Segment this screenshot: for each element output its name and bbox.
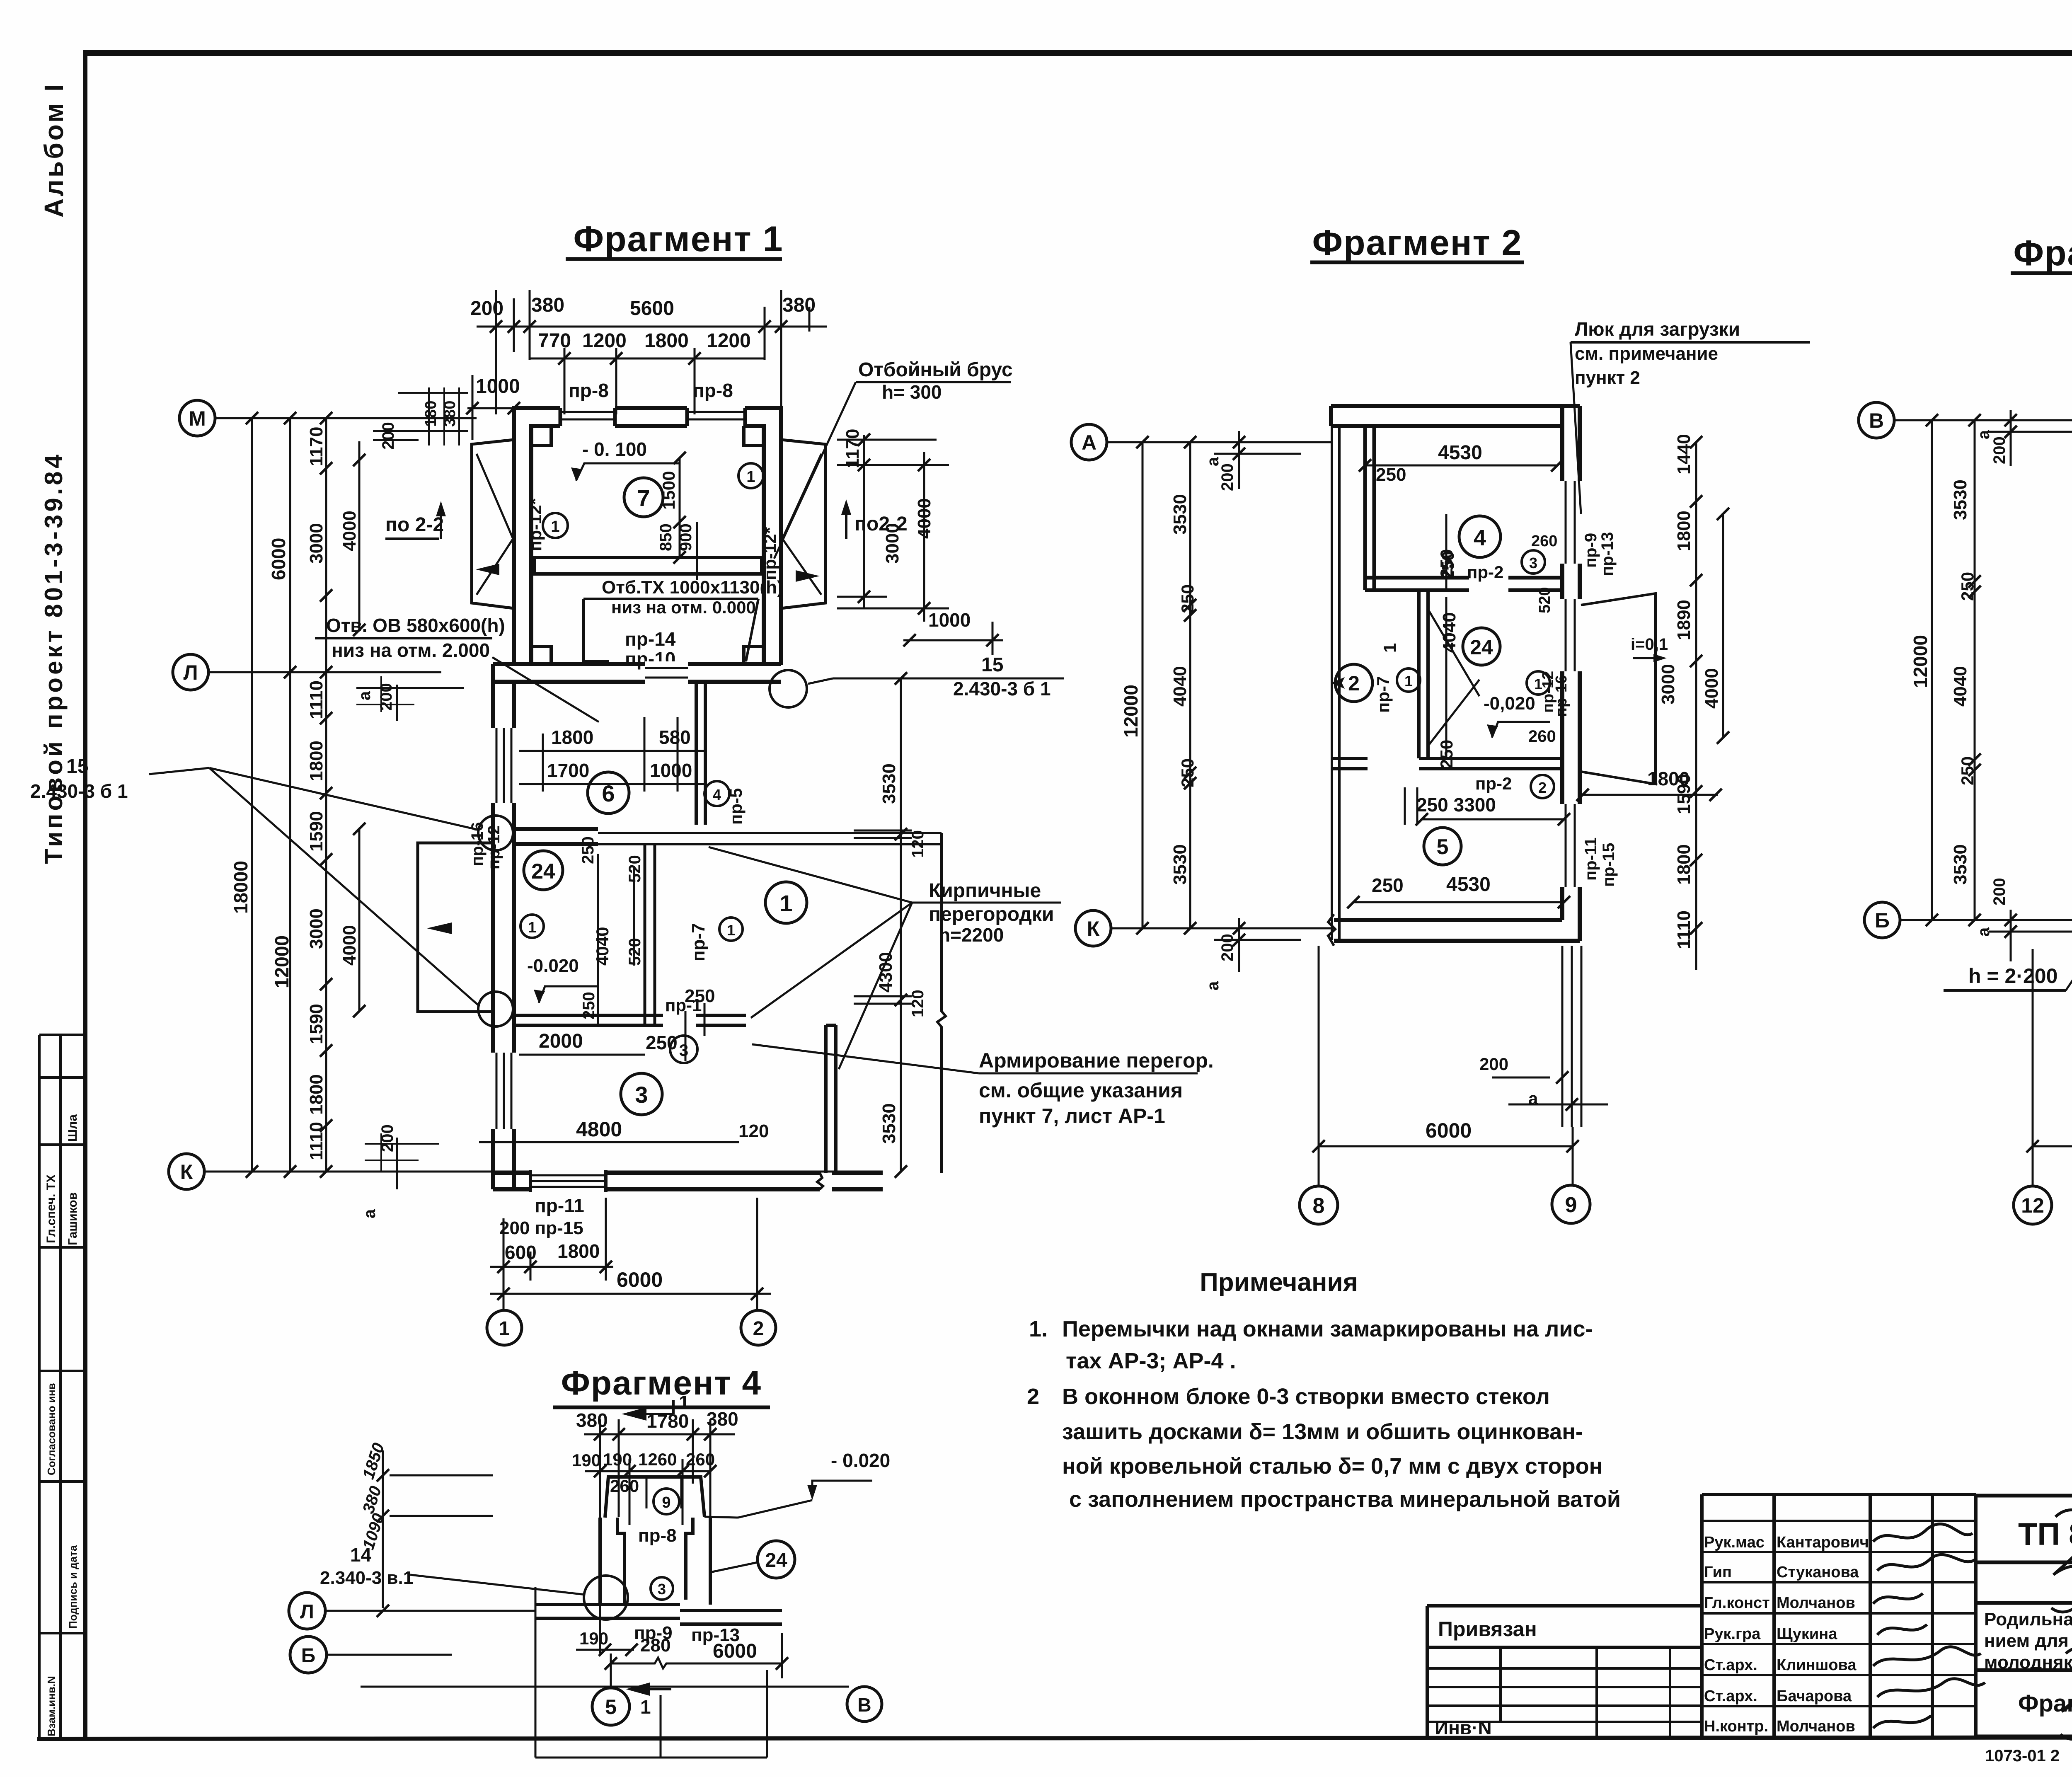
svg-text:пр-7: пр-7 (1373, 676, 1393, 713)
svg-text:А: А (1082, 431, 1097, 454)
F2 middle partition (1419, 590, 1428, 758)
svg-text:200: 200 (1218, 934, 1237, 961)
F1 по2-2 right (854, 513, 908, 535)
svg-text:Клиншова: Клиншова (1777, 1656, 1857, 1674)
svg-text:6000: 6000 (713, 1640, 757, 1662)
svg-text:1500: 1500 (659, 471, 678, 510)
svg-text:24: 24 (531, 859, 555, 884)
svg-text:3000: 3000 (306, 908, 327, 949)
svg-text:4000: 4000 (339, 925, 360, 966)
F1 left tambour arrow (476, 564, 499, 575)
F3 h=2.200 callout (1968, 964, 2057, 988)
svg-text:1: 1 (1380, 643, 1399, 653)
F4 axis circle В right (847, 1687, 882, 1721)
F1 Л wall door gap (645, 661, 688, 684)
svg-text:2.430-3 б 1: 2.430-3 б 1 (30, 780, 128, 802)
svg-text:Фрагмент 3: Фрагмент 3 (2014, 233, 2072, 273)
F1 right tambour door swings (782, 454, 821, 595)
svg-text:260: 260 (1528, 727, 1556, 746)
sheet border top (84, 50, 2072, 56)
F4 axis circle Б (290, 1637, 327, 1673)
faint stamp below (1985, 1747, 2060, 1765)
svg-text:h= 300: h= 300 (882, 381, 942, 403)
svg-text:В: В (1869, 409, 1884, 432)
F1 leader circle right corner (770, 670, 807, 707)
F2 room4 left wall (1365, 426, 1374, 590)
F2 right wall (1562, 406, 1580, 941)
F1 room3 dims (539, 986, 769, 1141)
svg-text:190: 190 (572, 1450, 601, 1470)
album label vertical (39, 82, 69, 218)
svg-text:5: 5 (1437, 835, 1449, 859)
svg-text:Фрагмент 2: Фрагмент 2 (1312, 223, 1523, 263)
F1 left chain 18000 (230, 861, 252, 914)
svg-text:Рук.гра: Рук.гра (1704, 1625, 1761, 1643)
F2 room5 circle (1424, 828, 1461, 865)
F1 room24 partition vertical (645, 844, 655, 1024)
svg-text:2: 2 (1348, 672, 1360, 695)
F1 bottom dims (499, 1195, 663, 1291)
svg-text:1170: 1170 (842, 429, 863, 468)
F2 1800 dim right (1647, 768, 1690, 789)
F1 left wall window 2 (490, 1053, 517, 1129)
svg-text:1073-01 2: 1073-01 2 (1985, 1747, 2060, 1765)
svg-text:1110: 1110 (306, 680, 327, 719)
F1 small dim cluster Л (356, 683, 395, 711)
svg-text:ной кровельной сталью δ= 0,: ной кровельной сталью δ= 0,7 мм с двух с… (1062, 1454, 1602, 1479)
svg-text:Родильная на 25коров с помеще: Родильная на 25коров с помеще (1984, 1609, 2072, 1629)
F1 left chain 6000 12000 (268, 538, 293, 988)
F1 room3 circle (621, 1073, 662, 1115)
svg-text:280: 280 (640, 1635, 670, 1656)
title Фрагмент 4 (561, 1364, 762, 1402)
svg-text:Кантарович: Кантарович (1777, 1534, 1869, 1551)
svg-text:-0.020: -0.020 (527, 956, 579, 976)
F1 bottom wall break (817, 1173, 823, 1189)
svg-text:1200: 1200 (582, 330, 627, 352)
svg-text:9: 9 (662, 1494, 670, 1511)
note 1 line 1 (1029, 1317, 1593, 1341)
svg-text:а: а (1204, 457, 1222, 466)
svg-text:3000: 3000 (1658, 664, 1678, 705)
svg-text:молодняка на 220 голов: молодняка на 220 голов (1984, 1652, 2072, 1673)
F4 section mark K1 (622, 1400, 673, 1421)
F1 room1 break line right (937, 833, 946, 1173)
F1 right chain lower (876, 763, 927, 1144)
F4 axis circle 5 (592, 1688, 629, 1725)
F3 axis circle Б (1864, 902, 1900, 938)
svg-text:2: 2 (753, 1318, 764, 1340)
F1 room7 vertical dim 1500/850/900 (657, 471, 695, 551)
svg-text:1260: 1260 (638, 1450, 677, 1469)
svg-text:5: 5 (605, 1695, 617, 1719)
svg-text:пр-2: пр-2 (1475, 774, 1512, 793)
svg-text:К: К (1087, 917, 1100, 940)
svg-text:Кирпичные: Кирпичные (929, 880, 1041, 902)
titleblock left box Привязан (1427, 1606, 1702, 1736)
F2 left thin wall (1332, 426, 1339, 940)
svg-text:2: 2 (1538, 779, 1547, 796)
svg-text:тах АР-3; АР-4 .: тах АР-3; АР-4 . (1066, 1348, 1236, 1373)
F1 left leader 15 (30, 755, 128, 802)
F1 mark -0.020 (527, 956, 579, 976)
svg-text:6000: 6000 (617, 1268, 663, 1291)
F4 floor lines (535, 1605, 782, 1624)
svg-text:3: 3 (679, 1041, 688, 1060)
svg-text:12: 12 (2021, 1194, 2044, 1217)
svg-text:1800: 1800 (551, 726, 593, 748)
svg-text:250: 250 (646, 1032, 678, 1053)
F4 leader 14 2.340 (320, 1544, 413, 1588)
svg-text:Л: Л (183, 661, 198, 684)
F1 axis line Л (208, 671, 441, 673)
F2 circle 1 right + пр-12 пр-16 (1527, 671, 1550, 695)
F3 axis circle В (1859, 402, 1894, 438)
F4 пр-8 label (638, 1525, 677, 1546)
svg-text:1.: 1. (1029, 1317, 1048, 1341)
svg-text:1110: 1110 (1674, 910, 1694, 949)
F1 lower block left wall (493, 664, 514, 1189)
F2 люк callout (1575, 318, 1740, 388)
svg-text:1: 1 (499, 1318, 510, 1340)
F2 left chains (1120, 457, 1237, 990)
svg-text:В оконном блоке 0-3 створки: В оконном блоке 0-3 створки вместо стеко… (1062, 1384, 1550, 1409)
svg-text:770: 770 (538, 330, 571, 352)
svg-text:250: 250 (1376, 465, 1406, 485)
svg-text:120: 120 (909, 830, 927, 858)
F1 circle 3 small (670, 1036, 697, 1063)
note 2 line 4 (1069, 1487, 1621, 1512)
svg-text:260: 260 (686, 1450, 715, 1469)
F2 room4 dims (1376, 442, 1503, 582)
svg-text:4800: 4800 (576, 1118, 622, 1141)
personnel signatures scribbles (1873, 1510, 2072, 1739)
svg-text:пр-13: пр-13 (1598, 532, 1617, 576)
svg-text:пункт 7, лист АР-1: пункт 7, лист АР-1 (979, 1104, 1165, 1128)
svg-text:200: 200 (470, 298, 503, 320)
F1 bottom wall (493, 1173, 883, 1189)
F1 axis circle 1 (487, 1310, 522, 1345)
svg-text:4: 4 (1474, 525, 1486, 550)
svg-text:190: 190 (579, 1629, 608, 1648)
svg-text:1000: 1000 (650, 760, 692, 781)
svg-text:см. примечание: см. примечание (1575, 344, 1718, 364)
svg-text:3530: 3530 (879, 763, 899, 804)
svg-text:Люк для загрузки: Люк для загрузки (1575, 318, 1740, 340)
F4 top dims row2 (572, 1450, 715, 1470)
F1 right tambour (781, 440, 825, 608)
svg-text:пр-15: пр-15 (1600, 843, 1618, 887)
note 1 line 2 (1066, 1348, 1236, 1373)
titleblock right box (1976, 1496, 2072, 1736)
svg-text:по 2-2: по 2-2 (385, 514, 444, 536)
svg-text:1800: 1800 (306, 1074, 327, 1115)
F2 bottom wall break (1328, 914, 1335, 946)
svg-text:1000: 1000 (476, 375, 520, 397)
F1 axis circle 2 (741, 1310, 776, 1345)
svg-text:4: 4 (713, 786, 721, 803)
svg-text:пункт 2: пункт 2 (1575, 368, 1640, 388)
svg-text:пр-12*: пр-12* (525, 498, 545, 551)
title Фрагмент 2 (1312, 223, 1523, 263)
svg-text:Типовой проект 801-3-39.84: Типовой проект 801-3-39.84 (40, 452, 68, 864)
svg-text:низ на отм. 2.000: низ на отм. 2.000 (332, 639, 490, 661)
svg-text:Гл.спеч. ТХ: Гл.спеч. ТХ (44, 1174, 58, 1243)
svg-text:с заполнением пространства: с заполнением пространства минеральной в… (1069, 1487, 1621, 1512)
svg-text:2.340-3 в.1: 2.340-3 в.1 (320, 1568, 413, 1588)
F1 отбойный брус callout (858, 359, 1013, 403)
svg-text:250: 250 (579, 836, 597, 864)
F1 axis circle Л (173, 654, 208, 690)
svg-text:2000: 2000 (539, 1030, 583, 1052)
F2 right wall window 2 (1559, 599, 1583, 671)
svg-text:200: 200 (1218, 463, 1237, 491)
svg-text:Бачарова: Бачарова (1777, 1687, 1852, 1705)
F2 right wall window 1 (1559, 481, 1583, 564)
svg-text:1590: 1590 (306, 1004, 327, 1044)
svg-text:пр-16: пр-16 (1553, 675, 1570, 717)
F3 axis circle 12 (2014, 1186, 2052, 1224)
F1 bottom wall window (530, 1170, 606, 1192)
F1 кирпичные перегородки callout (929, 880, 1054, 946)
svg-text:Гип: Гип (1704, 1564, 1732, 1581)
svg-text:Инв·N: Инв·N (1435, 1717, 1492, 1738)
F4 window block top (605, 1477, 704, 1518)
svg-text:260: 260 (1531, 533, 1557, 550)
F4 top dims row1 (576, 1408, 738, 1432)
svg-text:1890: 1890 (1674, 600, 1694, 640)
svg-text:24: 24 (765, 1549, 787, 1571)
F1 mark -0.100 (582, 438, 647, 460)
F1 small dim cluster M (379, 401, 459, 450)
F2 i=0.1 (1631, 635, 1668, 654)
F2 260 520 dims (1531, 533, 1557, 613)
svg-text:Щукина: Щукина (1777, 1625, 1837, 1643)
svg-text:1590: 1590 (1674, 774, 1694, 814)
svg-text:3530: 3530 (1950, 844, 1970, 885)
F4 arrow 1 mark (626, 1683, 671, 1696)
F1 top dim ticks 2 (558, 352, 701, 365)
svg-text:Б: Б (301, 1645, 316, 1667)
F4 circle 3 (651, 1577, 673, 1600)
svg-text:1: 1 (727, 922, 735, 939)
svg-text:по2-2: по2-2 (854, 513, 908, 535)
F1 Л wall (493, 664, 781, 682)
F1 axis line К (204, 1171, 883, 1173)
svg-text:1: 1 (528, 919, 536, 936)
F1 армирование callout (979, 1049, 1214, 1128)
svg-text:Фрагменты 1÷4: Фрагменты 1÷4 (2018, 1690, 2072, 1717)
F1 right tambour arrow (796, 570, 820, 582)
svg-text:1170: 1170 (306, 427, 327, 466)
svg-text:1: 1 (640, 1696, 651, 1718)
F1 small rotated dims room24 (579, 836, 644, 1019)
notes title (1200, 1268, 1358, 1297)
F4 circle 24 with leader (758, 1541, 795, 1578)
svg-text:h=2200: h=2200 (939, 924, 1004, 946)
svg-text:пр-5: пр-5 (726, 788, 746, 825)
F2 plan top wall (1331, 406, 1580, 426)
F4 circle 9 (654, 1489, 679, 1514)
F1 right leader 15 (953, 654, 1051, 700)
titleblock project name (1984, 1609, 2072, 1673)
svg-text:пр-8: пр-8 (638, 1525, 677, 1546)
svg-text:2: 2 (1027, 1384, 1039, 1409)
svg-text:перегородки: перегородки (929, 903, 1054, 925)
svg-text:250 3300: 250 3300 (1416, 794, 1496, 816)
F2 room24 bottom partition (1332, 758, 1562, 769)
svg-text:К: К (180, 1160, 193, 1184)
svg-text:15: 15 (981, 654, 1003, 676)
F2 axis circle 8 (1300, 1186, 1338, 1224)
F1 room7 corner piers (531, 426, 764, 664)
svg-text:пр-8: пр-8 (693, 380, 733, 401)
F1 circle 4 pr-5 (704, 781, 729, 806)
F1 top dim ticks 1 (490, 320, 787, 333)
svg-text:- 0. 100: - 0. 100 (582, 438, 647, 460)
svg-text:- 0.020: - 0.020 (831, 1450, 890, 1471)
F1 пр-16 пр-12 rotated (468, 822, 503, 869)
title Фрагмент 3 (2014, 233, 2072, 273)
svg-text:пр-11: пр-11 (1582, 838, 1600, 881)
svg-text:Фрагмент 4: Фрагмент 4 (561, 1364, 762, 1402)
svg-text:190: 190 (603, 1450, 632, 1469)
svg-text:Отв. ОВ 580х600(h): Отв. ОВ 580х600(h) (326, 615, 505, 636)
svg-text:250: 250 (1372, 874, 1404, 896)
F1 room7 outer walls (514, 408, 781, 665)
svg-text:4000: 4000 (339, 511, 360, 551)
svg-text:Стуканова: Стуканова (1777, 1564, 1859, 1581)
F1 top dim line 1 (477, 290, 827, 414)
svg-text:3530: 3530 (1950, 479, 1970, 520)
F1 room6 partition right (696, 682, 705, 825)
F2 room24 circle (1463, 628, 1500, 665)
svg-text:250: 250 (685, 986, 715, 1006)
svg-text:3: 3 (1529, 554, 1537, 571)
svg-text:Ст.арх.: Ст.арх. (1704, 1687, 1757, 1705)
F4 190 280 dims (579, 1629, 670, 1656)
svg-text:Подпись и дата: Подпись и дата (67, 1545, 79, 1629)
F1 top dim line 2 (530, 348, 765, 414)
svg-text:580: 580 (659, 726, 691, 748)
F2 door swings middle (1428, 609, 1479, 746)
svg-text:Примечания: Примечания (1200, 1268, 1358, 1297)
F1 по2-2 left (385, 514, 444, 536)
svg-text:низ на отм. 0.000: низ на отм. 0.000 (611, 598, 756, 617)
svg-text:250: 250 (1178, 758, 1197, 787)
svg-text:1000: 1000 (928, 609, 971, 631)
sheet border bottom (37, 1737, 2072, 1739)
F2 mark -0.020 (1484, 693, 1535, 714)
svg-text:200: 200 (1990, 436, 2009, 464)
svg-text:пр-11: пр-11 (535, 1195, 584, 1216)
svg-text:180: 180 (422, 401, 440, 427)
svg-text:5600: 5600 (630, 298, 674, 320)
svg-text:В: В (857, 1694, 871, 1716)
F2 rotated пр labels right (1582, 532, 1618, 887)
F2 bottom wall (1334, 920, 1580, 941)
F2 room4 bottom wall (1365, 578, 1562, 590)
personnel names (1704, 1534, 1869, 1735)
svg-text:а: а (1204, 981, 1222, 990)
svg-text:1780: 1780 (646, 1410, 689, 1432)
svg-text:7: 7 (637, 485, 650, 511)
svg-text:пр-14: пр-14 (625, 628, 676, 650)
svg-text:М: М (189, 407, 206, 430)
svg-text:4000: 4000 (1702, 668, 1722, 709)
F1 feed bar (535, 557, 762, 574)
svg-text:260: 260 (610, 1476, 639, 1496)
svg-text:Б: Б (1875, 909, 1890, 932)
F1 left wall window 1 (490, 728, 517, 803)
svg-text:Привязан: Привязан (1438, 1617, 1537, 1641)
F1 left tambour (472, 440, 514, 608)
F1 room1 circle (765, 882, 807, 923)
F1 top dim 1000 (476, 375, 520, 397)
svg-text:120: 120 (738, 1121, 769, 1141)
F1 room6 dims (547, 726, 692, 781)
F2 room5 dims bottom (1372, 874, 1491, 896)
svg-text:1800: 1800 (1674, 511, 1694, 551)
svg-text:1: 1 (1404, 673, 1413, 690)
svg-text:Армирование перегор.: Армирование перегор. (979, 1049, 1214, 1072)
svg-text:Молчанов: Молчанов (1777, 1718, 1855, 1735)
F2 axis circle К (1075, 910, 1111, 946)
svg-text:ТП 801-3-39.84: ТП 801-3-39.84 (2018, 1517, 2072, 1552)
F1 отб.ТХ callout (602, 577, 783, 617)
svg-text:380: 380 (531, 294, 564, 316)
svg-text:Альбом I: Альбом I (39, 82, 69, 218)
svg-text:Молчанов: Молчанов (1777, 1594, 1855, 1612)
F1 room3 right wall (826, 1025, 836, 1173)
svg-text:1440: 1440 (1674, 434, 1694, 475)
svg-text:380: 380 (707, 1408, 738, 1430)
F1 top dim row 2 (538, 330, 751, 352)
F1 left tambour door swings (477, 454, 513, 595)
note 2 line 1 (1027, 1384, 1550, 1409)
F1 right chains upper (842, 429, 934, 564)
svg-text:Перемычки над окнами замарк: Перемычки над окнами замаркированы на ли… (1062, 1317, 1593, 1341)
svg-text:200 пр-15: 200 пр-15 (499, 1218, 583, 1238)
svg-text:4300: 4300 (876, 952, 896, 993)
svg-text:см. общие указания: см. общие указания (979, 1079, 1183, 1102)
F1 left chain segments (306, 427, 327, 1160)
F1 room7 top windows (560, 405, 745, 429)
F1 room24 circle (524, 851, 563, 890)
svg-text:3: 3 (635, 1082, 648, 1108)
svg-text:-0,020: -0,020 (1484, 693, 1535, 714)
F1 top dim row 1 (470, 294, 816, 320)
F4 left chain (359, 1441, 388, 1552)
F1 пр-12 rotated labels (525, 498, 779, 580)
svg-text:4040: 4040 (1439, 612, 1460, 653)
svg-text:24: 24 (1470, 636, 1493, 659)
svg-text:1: 1 (746, 468, 755, 486)
svg-text:Ст.арх.: Ст.арх. (1704, 1656, 1757, 1674)
F1 right 1000 dim (928, 609, 971, 631)
F1 circle 1b (738, 463, 763, 488)
svg-text:9: 9 (1565, 1193, 1577, 1217)
svg-text:12000: 12000 (1910, 635, 1931, 688)
svg-text:пр-8: пр-8 (569, 380, 609, 401)
svg-text:250: 250 (1437, 549, 1456, 578)
svg-text:зашить досками δ= 13мм и о: зашить досками δ= 13мм и обшить оцинкова… (1062, 1419, 1583, 1444)
svg-text:Рук.мас: Рук.мас (1704, 1534, 1765, 1551)
svg-text:3000: 3000 (306, 523, 327, 564)
svg-text:4040: 4040 (593, 927, 612, 966)
svg-text:1800: 1800 (557, 1240, 600, 1262)
svg-text:1200: 1200 (707, 330, 751, 352)
